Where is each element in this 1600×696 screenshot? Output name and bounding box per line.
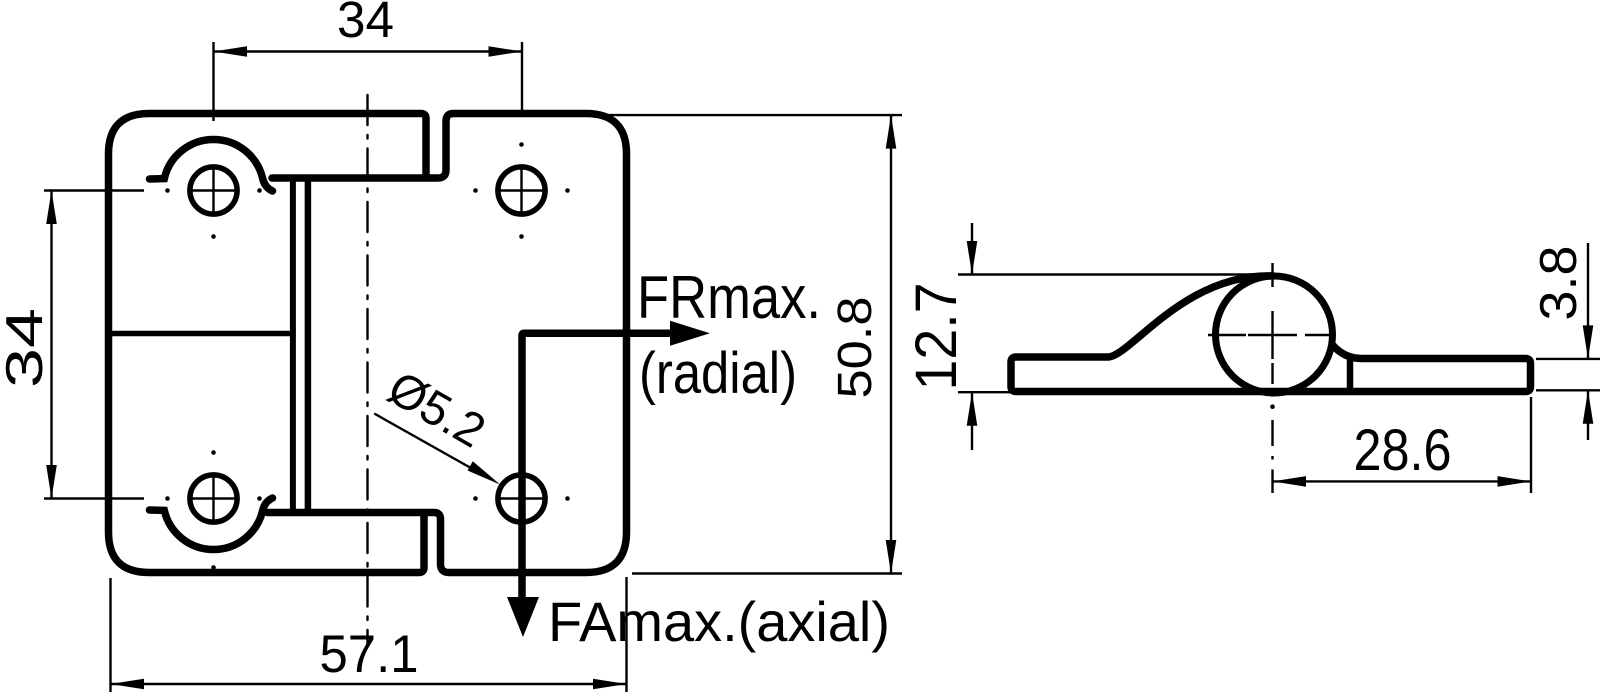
hinge pin line right [305,180,312,510]
dimension 50.8 right: extension line bottom [632,572,902,574]
dimension 34 top: extension line right [521,42,523,117]
hole top-right [473,142,570,239]
dimension 28.6: extension line right [1530,397,1532,493]
dimension 12.7: extension line bottom [958,391,1011,393]
dimension 34 top: arrow left [214,46,248,57]
dimension 28.6: arrow right [1498,476,1532,487]
hinge pin line left [290,180,296,510]
dimension 34 top: extension line left [212,42,214,121]
dimension 34 left: dimension line [50,191,52,499]
svg-text:FAmax.(axial): FAmax.(axial) [548,590,890,653]
svg-text:FRmax.: FRmax. [637,264,821,331]
left leaf outline [109,114,427,573]
side view base plate outline [1011,357,1531,392]
side view right leaf end edge [1347,359,1354,390]
dimension 28.6: dimension line [1273,480,1532,482]
svg-text:3.8: 3.8 [1530,246,1588,321]
dimension 50.8 right: dimension line [890,115,892,573]
side view fillet right of knuckle [1332,344,1362,359]
FRmax radial force arrow [522,333,672,598]
dimension 34 left: extension line top [44,189,144,191]
dimension 50.8 right: arrow bottom [886,540,897,574]
dimension 34 left: arrow top [46,191,57,225]
side view knuckle circle [1216,276,1333,393]
dimension 34 top: dimension line [214,50,523,52]
dimension 50.8 right: extension line top [587,114,902,116]
hole top-left [165,166,262,239]
left leaf mid horizontal edge [110,331,292,337]
top knuckle cutout arc [150,139,273,191]
dimension 3.8: extension line bottom [1536,389,1600,391]
dimension 34 top: arrow right [489,46,523,57]
dimension 34 left: arrow bottom [46,465,57,499]
leader Ø5.2: arrow [468,461,501,484]
bottom knuckle cutout arc [150,498,273,550]
dimension 3.8: dimension line + outside arrows [1587,243,1589,359]
vertical centerline of front view [366,95,368,645]
svg-text:34: 34 [0,308,54,388]
FAmax axial force arrow head [507,597,539,637]
svg-text:34: 34 [337,0,394,48]
svg-text:12.7: 12.7 [904,283,969,391]
dimension 28.6: arrow left [1273,476,1307,487]
svg-text:(radial): (radial) [639,341,797,406]
leader Ø5.2: leader line [374,414,478,473]
dimension 57.1 bottom: arrow right [593,679,627,690]
hole bottom-right [473,450,570,523]
dimension 12.7: dimension line + outside arrows [971,223,973,275]
svg-text:28.6: 28.6 [1354,418,1452,483]
dimension 57.1 bottom: extension line left [109,578,111,692]
dimension 57.1 bottom: extension line right [625,577,627,692]
dimension 3.8: extension line top [1536,358,1600,360]
side view knuckle center mark [1208,263,1330,409]
svg-text:50.8: 50.8 [829,297,882,399]
dimension 57.1 bottom: dimension line [111,683,627,685]
side view hump curve [1108,276,1274,357]
dimension 12.7: extension line top [958,273,1259,275]
svg-text:57.1: 57.1 [320,625,419,684]
dimension 57.1 bottom: arrow left [111,679,145,690]
dimension 34 left: extension line bottom [44,497,144,499]
hole bottom-left [165,450,262,570]
dimension 50.8 right: arrow top [886,115,897,149]
right leaf outline [267,114,627,573]
dimension 28.6: extension line left (centerline continuation) [1271,420,1273,493]
